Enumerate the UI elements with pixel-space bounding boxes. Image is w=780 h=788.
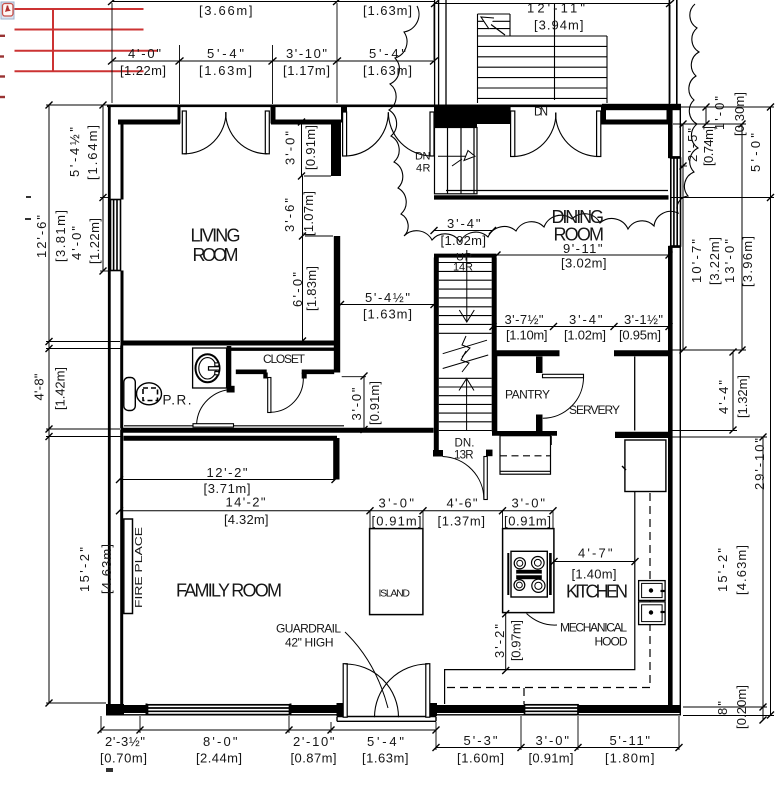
svg-text:[3.66m]: [3.66m] xyxy=(199,3,253,18)
svg-text:[0.70m]: [0.70m] xyxy=(100,751,147,766)
svg-text:5'-3": 5'-3" xyxy=(464,733,498,748)
svg-text:3'-0": 3'-0" xyxy=(283,131,298,165)
svg-text:[3.81m]: [3.81m] xyxy=(53,210,68,262)
svg-text:5'-4½": 5'-4½" xyxy=(365,290,410,305)
svg-text:[1.37m]: [1.37m] xyxy=(438,514,486,529)
svg-text:3'-4": 3'-4" xyxy=(447,216,481,231)
svg-text:[1.60m]: [1.60m] xyxy=(457,751,504,766)
svg-text:6'-0": 6'-0" xyxy=(290,272,305,307)
right 4'-4" chain xyxy=(732,352,734,430)
hall / dining divider wall xyxy=(434,195,669,199)
svg-text:8": 8" xyxy=(715,701,730,715)
sink faucets xyxy=(661,590,666,592)
svg-text:[1.02m]: [1.02m] xyxy=(564,328,606,343)
left exterior wall inner face segments xyxy=(120,120,123,705)
pedestal sink bowl outer xyxy=(196,354,220,382)
living room double door 1 left leaf xyxy=(182,111,186,154)
svg-text:[1.63m]: [1.63m] xyxy=(362,751,409,766)
bottom left chain xyxy=(101,729,436,731)
cooktop side rails xyxy=(507,553,509,595)
svg-text:HOOD: HOOD xyxy=(595,635,628,649)
dining south wall east segment xyxy=(614,350,669,356)
burner rear-right xyxy=(532,579,545,592)
3'-4" stair width dim line xyxy=(434,230,493,232)
patio door bay jamb blocks xyxy=(337,703,344,716)
stair down arrow (upper flight) xyxy=(459,250,474,322)
patio french door right leaf xyxy=(426,664,430,718)
9'-11" dining dim line xyxy=(497,254,669,256)
svg-text:FIRE PLACE: FIRE PLACE xyxy=(133,527,145,608)
svg-text:[1.83m]: [1.83m] xyxy=(304,266,319,311)
svg-text:3'-0": 3'-0" xyxy=(379,496,415,511)
burner front-right xyxy=(532,557,545,570)
burner rear-left xyxy=(514,580,525,591)
top row2 dim line 4'-0"/5'-4"/3'-10"/5'-4" xyxy=(112,60,434,62)
rotated dim texts left side xyxy=(32,125,115,594)
DN4R direction arrow xyxy=(438,151,475,167)
svg-text:[0.30m]: [0.30m] xyxy=(732,92,747,136)
main stair upper flight treads xyxy=(434,263,492,334)
jamb block between openings xyxy=(271,107,276,124)
pantry/servery door swing arc xyxy=(543,378,584,418)
bottom exterior wall band xyxy=(106,705,681,713)
revision cloud around entry/dining area xyxy=(389,4,699,242)
14'-2" + island/stove dim line xyxy=(120,510,554,512)
rotated dim texts right side xyxy=(685,92,767,729)
DN4R stair top wall xyxy=(434,123,477,128)
svg-text:[1.40m]: [1.40m] xyxy=(572,567,617,582)
svg-text:2'-5": 2'-5" xyxy=(685,128,700,162)
red margin tick marks on left edge xyxy=(0,36,5,97)
svg-text:[1.80m]: [1.80m] xyxy=(605,751,655,766)
dining 3-seg dim line xyxy=(493,326,669,328)
svg-text:4'-0": 4'-0" xyxy=(69,226,84,260)
refrigerator door tick xyxy=(622,466,626,470)
5'-4 1/2" dim line xyxy=(341,304,435,306)
svg-text:MECHANICAL: MECHANICAL xyxy=(560,621,627,635)
living room double door 1 swing arcs xyxy=(184,112,226,154)
pantry east wall upper jamb xyxy=(536,357,543,374)
svg-text:DN.: DN. xyxy=(455,438,475,450)
closet door jamb blocks xyxy=(263,373,267,379)
kitchen upper cabinets dashed xyxy=(445,493,650,704)
pedestal sink box xyxy=(193,348,227,388)
svg-text:[1.63m]: [1.63m] xyxy=(363,307,412,322)
wall between P.R. sink nook and closet xyxy=(227,346,232,389)
living room window in left wall xyxy=(111,200,121,271)
svg-text:DN: DN xyxy=(534,107,548,119)
svg-text:[0.20m]: [0.20m] xyxy=(734,685,749,729)
entry door jamb left vertical xyxy=(507,107,511,124)
hall 3'-0" dim line xyxy=(363,376,365,430)
svg-text:[4.63m]: [4.63m] xyxy=(734,545,749,595)
patio door bay sill lines xyxy=(337,717,436,722)
servery south wall stub xyxy=(615,432,669,438)
family room NE step wall xyxy=(333,438,339,480)
entry double door swing arcs xyxy=(513,113,556,157)
red revision table lines xyxy=(15,9,159,71)
thin floor line above P.R. bottom wall xyxy=(124,425,344,427)
pantry bottom wall xyxy=(492,431,557,436)
stair bottom door jamb block xyxy=(486,450,493,457)
living room double door 2 left leaf xyxy=(343,112,347,156)
top row1 dim line 12'-0" / 5'-4" xyxy=(112,1,435,3)
svg-text:[3.02m]: [3.02m] xyxy=(561,256,607,271)
svg-text:FAMILY ROOM: FAMILY ROOM xyxy=(176,581,282,601)
kitchen window in bottom wall xyxy=(525,705,579,715)
svg-text:[0.87m]: [0.87m] xyxy=(291,751,337,766)
svg-text:[0.97m]: [0.97m] xyxy=(509,620,524,661)
stair break lines with zigzag xyxy=(443,336,489,372)
svg-text:[1.63m]: [1.63m] xyxy=(363,3,412,18)
svg-text:3'-2": 3'-2" xyxy=(492,624,507,658)
top-right outer wall thick band xyxy=(602,104,681,110)
dining room window in right wall xyxy=(669,157,682,247)
interior horizontal dim texts xyxy=(204,465,617,582)
P.R. door jamb block xyxy=(227,386,235,393)
svg-text:4'-0": 4'-0" xyxy=(128,46,161,61)
patio french door crossing swing arcs xyxy=(345,664,398,717)
svg-text:[3.94m]: [3.94m] xyxy=(534,18,584,33)
closet top wall line xyxy=(231,348,334,351)
bottom wall outer thin line xyxy=(106,714,681,716)
right 1'-0" chain xyxy=(705,107,707,124)
room labels xyxy=(176,207,628,602)
bottom dim row texts xyxy=(100,733,655,766)
left window chain dim line xyxy=(102,105,104,271)
interior wall right of living room xyxy=(334,236,340,373)
living room double door 2 right leaf xyxy=(430,112,434,156)
svg-text:[0.91m]: [0.91m] xyxy=(504,514,551,529)
svg-text:[1.22m]: [1.22m] xyxy=(87,218,102,264)
svg-text:3'-0": 3'-0" xyxy=(512,496,546,511)
svg-text:42" HIGH: 42" HIGH xyxy=(285,636,334,650)
oven band xyxy=(516,570,542,579)
svg-text:PANTRY: PANTRY xyxy=(505,388,550,402)
svg-text:[0.91m]: [0.91m] xyxy=(303,125,318,170)
entry double door left leaf xyxy=(511,111,515,157)
kitchen island xyxy=(370,529,423,615)
kitchen double sink lower bowl xyxy=(639,602,666,625)
svg-text:8'-0": 8'-0" xyxy=(203,734,238,749)
svg-text:[0.91m]: [0.91m] xyxy=(372,514,422,529)
svg-text:4R: 4R xyxy=(416,163,431,175)
svg-text:[1.07m]: [1.07m] xyxy=(301,191,316,236)
P.R. door swing arc xyxy=(197,390,233,425)
pedestal sink bowl inner xyxy=(199,358,216,379)
mechanical hood leader curve xyxy=(527,614,558,626)
svg-text:[1.32m]: [1.32m] xyxy=(735,375,750,418)
svg-text:4'-6": 4'-6" xyxy=(447,496,478,511)
main stair lower flight treads xyxy=(439,378,492,430)
stair west wall foot xyxy=(433,450,443,457)
closet door leaf xyxy=(268,378,271,413)
6'-0" dim line xyxy=(302,236,304,341)
stair bottom door swing arc xyxy=(443,457,484,500)
svg-text:[1.63m]: [1.63m] xyxy=(363,63,412,78)
right 15'-2"/8" chain xyxy=(762,437,764,720)
svg-text:4'-7": 4'-7" xyxy=(578,546,613,561)
svg-text:13R: 13R xyxy=(454,450,474,462)
patio french door left leaf xyxy=(343,664,347,718)
kitchen counter front edge (right run) xyxy=(445,492,635,705)
right 13'-0" chain xyxy=(741,124,743,350)
stair bottom door leaf xyxy=(484,457,487,500)
closet bottom wall segments xyxy=(236,369,334,374)
P.R. vanity basin xyxy=(124,378,136,411)
svg-text:SERVERY: SERVERY xyxy=(569,403,620,417)
small room labels xyxy=(163,107,628,650)
3'-2" dim line xyxy=(505,614,507,671)
svg-text:[4.63m]: [4.63m] xyxy=(99,544,114,594)
svg-text:5'-4": 5'-4" xyxy=(367,734,404,749)
svg-text:[1.10m]: [1.10m] xyxy=(506,328,548,343)
svg-text:3'-4": 3'-4" xyxy=(569,312,603,327)
svg-text:LIVING: LIVING xyxy=(191,226,241,246)
bottom-left corner block xyxy=(106,704,124,715)
svg-text:[0.91m]: [0.91m] xyxy=(529,751,574,766)
stray ink specks near left margin xyxy=(25,196,113,772)
entry double door right leaf xyxy=(597,111,601,157)
exterior stoop treads xyxy=(478,14,608,103)
hall bottom / P.R. bottom wall xyxy=(121,428,434,433)
12'-2" dim line xyxy=(120,479,336,481)
servery east thin wall xyxy=(634,357,636,431)
porch east wall double line xyxy=(669,0,676,105)
svg-text:1'-0": 1'-0" xyxy=(712,96,727,130)
porch west wall double line xyxy=(435,0,446,105)
svg-text:[4.32m]: [4.32m] xyxy=(224,512,269,527)
pier 3'-0" dim line xyxy=(301,122,303,176)
svg-text:14R: 14R xyxy=(453,262,473,274)
svg-text:[2.44m]: [2.44m] xyxy=(196,751,242,766)
svg-text:3'-7½": 3'-7½" xyxy=(505,312,544,327)
family room top wall xyxy=(124,436,338,441)
P.R. toilet tank (dashed square) xyxy=(143,388,158,401)
svg-text:3'-0": 3'-0" xyxy=(536,733,570,748)
svg-text:ISLAND: ISLAND xyxy=(379,588,411,600)
pantry west wall xyxy=(492,351,497,432)
svg-text:[1.64m]: [1.64m] xyxy=(85,125,100,180)
main stair top wall xyxy=(434,254,497,258)
burner front-left xyxy=(514,558,525,569)
svg-text:5'-0": 5'-0" xyxy=(748,133,763,172)
svg-text:3'-6": 3'-6" xyxy=(282,198,297,232)
svg-text:KITCHEN: KITCHEN xyxy=(566,582,628,602)
svg-text:ROOM: ROOM xyxy=(554,225,605,245)
pantry counter xyxy=(500,436,551,475)
svg-text:[1.22m]: [1.22m] xyxy=(120,63,166,78)
exterior top wall outer face xyxy=(107,105,681,108)
fireplace box xyxy=(124,519,133,614)
svg-text:[3.96m]: [3.96m] xyxy=(740,236,755,287)
svg-text:[1.17m]: [1.17m] xyxy=(283,63,330,78)
range/stove cabinet outline xyxy=(503,529,554,613)
svg-text:P.R.: P.R. xyxy=(163,393,192,408)
svg-text:[0.91m]: [0.91m] xyxy=(367,381,382,425)
living room double door 1 right leaf xyxy=(265,111,269,154)
DN4R stair treads xyxy=(435,128,478,194)
living room double door 2 swing arcs xyxy=(345,112,389,156)
svg-text:3'-0": 3'-0" xyxy=(349,387,364,420)
refrigerator xyxy=(625,440,666,492)
cooktop panel xyxy=(511,551,547,597)
svg-text:3'-1½": 3'-1½" xyxy=(624,312,663,327)
svg-text:[1.02m]: [1.02m] xyxy=(441,233,487,248)
svg-text:[0.74m]: [0.74m] xyxy=(701,126,716,166)
main stair west wall xyxy=(434,258,439,457)
3'-6" dim line xyxy=(302,176,304,236)
closet door swing arc xyxy=(271,378,303,412)
top-right corner wall step xyxy=(667,108,673,124)
left chain dim line xyxy=(48,105,50,703)
dining south wall west segment xyxy=(492,350,560,356)
P.R. toilet bowl xyxy=(137,383,162,405)
svg-text:CLOSET: CLOSET xyxy=(263,352,306,366)
stair and dining dim texts xyxy=(363,216,663,343)
sink drains xyxy=(649,588,653,592)
pantry east wall lower jamb xyxy=(536,415,543,432)
svg-text:GUARDRAIL: GUARDRAIL xyxy=(276,622,341,636)
svg-text:2'-3½": 2'-3½" xyxy=(105,734,145,749)
stair up arrow (lower flight) xyxy=(459,379,474,432)
hall / dining divider thin line xyxy=(446,190,668,192)
bottom right chain xyxy=(436,747,679,749)
PDF annotation icon top-left xyxy=(1,2,14,19)
family room window in bottom wall xyxy=(147,704,291,716)
right exterior wall thick face xyxy=(668,110,673,705)
rotated dim texts center xyxy=(282,125,524,661)
top dim row texts xyxy=(120,1,585,79)
4'-7" dim line xyxy=(554,561,635,563)
left exterior wall outer face xyxy=(108,105,111,712)
svg-text:[3.22m]: [3.22m] xyxy=(707,237,722,285)
top 12'-11" dim line xyxy=(435,3,670,5)
svg-text:[0.95m]: [0.95m] xyxy=(619,328,661,343)
sink faucet spout xyxy=(209,367,220,370)
entry door jamb right xyxy=(601,107,606,125)
svg-text:5'-4": 5'-4" xyxy=(207,46,244,61)
living room bottom wall xyxy=(121,341,341,346)
svg-text:ROOM: ROOM xyxy=(193,245,239,265)
right exterior wall outer thin line xyxy=(679,105,681,716)
guardrail leader curve xyxy=(345,632,388,708)
svg-text:4'-8": 4'-8" xyxy=(32,373,47,400)
exterior stair direction arrow xyxy=(481,3,555,100)
jamb at living-room door opening 1 left xyxy=(178,107,181,124)
svg-text:[1.42m]: [1.42m] xyxy=(53,367,68,410)
kitchen double sink upper bowl xyxy=(639,581,666,601)
P.R. door leaf xyxy=(193,424,234,427)
svg-text:4'-4": 4'-4" xyxy=(716,380,731,414)
svg-text:[1.63m]: [1.63m] xyxy=(199,63,252,78)
svg-text:DN: DN xyxy=(415,151,431,163)
right 2'-5"/10'-7" chain xyxy=(682,124,684,350)
exterior top wall inner face segments xyxy=(118,120,671,125)
wall pier below top wall xyxy=(331,122,341,176)
pantry/servery door leaf xyxy=(543,374,584,377)
main stair east wall xyxy=(492,258,497,432)
svg-text:5'-4": 5'-4" xyxy=(369,46,406,61)
jamb block left of opening 2 xyxy=(341,107,347,123)
entry recessed solid wall left of door xyxy=(434,107,511,125)
sink faucet handles xyxy=(215,363,219,366)
right 5'-0"/29'-10" chain xyxy=(770,107,772,715)
